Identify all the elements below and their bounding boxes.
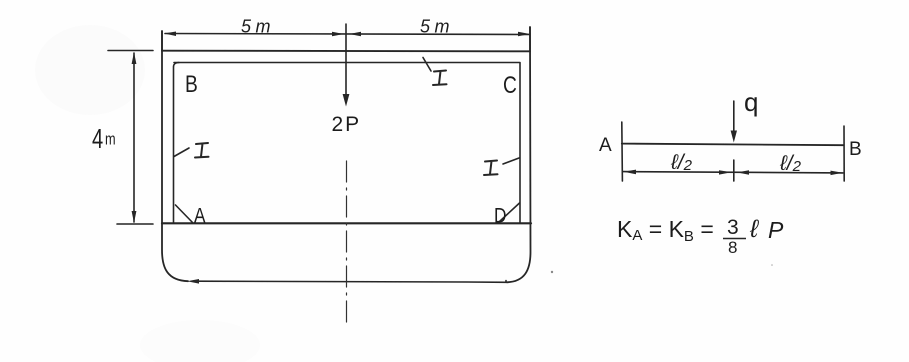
dimension 4m bottom tick [117,223,153,225]
dimension line 5m span [165,34,529,35]
leader line member I top [423,58,431,72]
arrowhead beam dim centre-left [719,170,732,174]
beam dimension line [623,172,843,173]
load q arrowhead [731,131,737,143]
svg-text:ℓ: ℓ [749,215,759,243]
svg-text:8: 8 [728,238,737,257]
svg-text:A: A [599,135,612,156]
dimension centre tick [345,24,347,51]
paper smudge bottom-left [140,320,260,362]
beam end tick A [621,122,624,181]
speck [551,271,553,273]
arrowhead centre-right 5m [349,32,361,37]
svg-text:m: m [105,130,116,149]
arrowhead beam dim right [831,171,843,176]
svg-text:ℓ/2: ℓ/2 [779,152,802,175]
svg-text:3: 3 [727,216,739,239]
beam dimension centre tick [733,160,735,181]
dimension extension left [161,31,163,51]
leader line member I right [503,158,519,164]
beam AB line [622,144,843,146]
member label I top [433,71,447,86]
svg-text:C: C [503,71,517,99]
hull bottom plate arrowhead [187,279,199,284]
dimension 4m top tick [108,50,153,52]
frame inner top chord [174,62,520,64]
leader line member I left [174,148,189,157]
svg-text:ℓ/2: ℓ/2 [670,151,693,174]
arrowhead beam dim left [624,170,637,175]
arrowhead 4m down [132,211,137,223]
bottom deck beam [162,222,531,224]
load q arrow line [733,101,735,134]
svg-text:2P: 2P [332,113,362,136]
centreline axis dash-dot [346,161,348,323]
svg-text:P: P [768,217,784,243]
load 2P arrowhead [343,94,350,107]
dimension extension right [529,27,531,51]
arrowhead left 5m [164,32,176,37]
svg-text:5m: 5m [420,17,454,37]
arrowhead 4m up [132,52,137,64]
svg-text:D: D [494,205,506,228]
frame outer right column and hull bottom-right curve [507,27,531,282]
frame inner left column [174,63,180,223]
arrowhead right 5m [518,32,530,37]
frame outer top chord [162,50,530,53]
paper smudge top-left [35,25,145,115]
svg-text:B: B [185,70,198,98]
svg-text:KA = KB =: KA = KB = [617,216,714,245]
joint A brace [176,205,194,223]
member label I right [484,161,498,176]
frame outer left column and hull bottom-left curve [162,31,188,281]
svg-text:q: q [744,87,758,117]
svg-text:4: 4 [92,124,103,155]
joint D brace [500,203,520,222]
arrowhead beam dim centre-right [737,170,749,174]
frame inner right column [519,63,521,223]
svg-text:5m: 5m [241,17,275,37]
speck [771,264,773,266]
load 2P arrow line [345,51,347,97]
arrowhead centre-left 5m [332,32,344,37]
beam end tick B [843,126,845,181]
hull bottom plate line [196,281,506,283]
formula KA = KB = 3/8 l P [617,215,784,257]
svg-text:B: B [849,139,862,160]
dimension 4m vertical line [133,53,135,222]
svg-text:A: A [194,205,206,228]
member label I left [195,143,209,158]
